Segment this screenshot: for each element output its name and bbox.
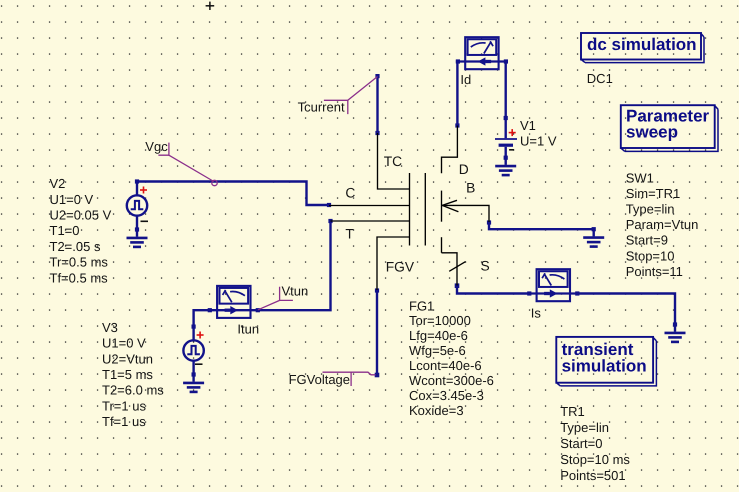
ground below V1 — [495, 158, 516, 175]
svg-text:U2=0.05 V: U2=0.05 V — [50, 208, 112, 223]
V3 parameter text block — [102, 320, 164, 429]
svg-text:S: S — [481, 259, 490, 274]
svg-text:Points=11: Points=11 — [626, 264, 683, 279]
svg-text:Koxide=3: Koxide=3 — [409, 403, 464, 418]
svg-text:T2=6.0 ms: T2=6.0 ms — [102, 383, 164, 398]
svg-text:Id: Id — [460, 72, 471, 87]
FG1 source slash — [449, 262, 465, 272]
transient simulation box — [556, 337, 656, 386]
svg-text:V3: V3 — [102, 320, 118, 335]
V2 bottom pin square — [135, 227, 139, 231]
Parameter sweep box — [621, 105, 718, 151]
svg-text:T1=0: T1=0 — [50, 223, 80, 238]
svg-text:Wcont=300e-6: Wcont=300e-6 — [409, 373, 494, 388]
label Vgc pointer — [158, 143, 217, 186]
svg-text:FGVoltage: FGVoltage — [289, 372, 350, 387]
svg-text:Tf=1 us: Tf=1 us — [102, 414, 146, 429]
origin marker — [206, 2, 215, 10]
svg-text:C: C — [345, 186, 355, 201]
FG1 channel bottom segment — [441, 237, 443, 253]
svg-text:Tf=0.5 ms: Tf=0.5 ms — [50, 270, 109, 285]
wire net Vtun: T pin down-left to Itun meter — [257, 221, 330, 310]
node C pin square — [327, 203, 331, 207]
label Vtun pointer — [258, 287, 293, 310]
svg-text:Cox=3.45e-3: Cox=3.45e-3 — [409, 388, 484, 403]
svg-text:T1=5 ms: T1=5 ms — [102, 367, 153, 382]
svg-text:Stop=10 ms: Stop=10 ms — [560, 452, 630, 467]
dc simulation box — [581, 33, 704, 63]
node S pin square — [455, 283, 460, 288]
svg-text:Tcurrent: Tcurrent — [298, 99, 345, 114]
svg-text:Points=501: Points=501 — [560, 468, 625, 483]
wire Id right to V1 — [505, 62, 507, 119]
ammeter Itun — [208, 286, 260, 318]
FG1 pin lead T — [331, 220, 410, 222]
svg-text:simulation: simulation — [562, 356, 647, 375]
svg-text:Itun: Itun — [237, 322, 259, 337]
V1 minus sign — [509, 149, 514, 151]
FG1 pin lead C — [329, 205, 410, 207]
wire Tcurrent — [376, 76, 378, 133]
svg-text:DC1: DC1 — [587, 71, 613, 86]
node V3 top pin square — [192, 325, 196, 329]
svg-text:Lcont=40e-6: Lcont=40e-6 — [409, 358, 482, 373]
svg-text:U1=0 V: U1=0 V — [102, 336, 146, 351]
V3 minus sign — [195, 363, 203, 365]
node D pin square — [455, 123, 459, 127]
svg-text:V2: V2 — [50, 176, 66, 191]
wire Id left to D — [456, 62, 458, 126]
svg-text:T: T — [345, 227, 354, 242]
svg-text:Type=lin: Type=lin — [626, 202, 675, 217]
FGMOS FG1 symbol — [329, 126, 489, 291]
FG1 gate bar 2 — [424, 173, 426, 246]
ground below V2 — [127, 230, 148, 247]
V2 parameter text block — [50, 176, 112, 285]
svg-text:Start=9: Start=9 — [626, 233, 668, 248]
ammeter Id — [456, 37, 508, 69]
ammeter Is — [527, 269, 579, 301]
node FGVoltage open end square — [375, 373, 380, 378]
node T pin square — [328, 219, 332, 223]
svg-text:FGV: FGV — [386, 260, 415, 275]
FG1 bulk lead B with arrow — [442, 205, 489, 222]
svg-text:SW1: SW1 — [626, 171, 654, 186]
svg-text:Lfg=40e-6: Lfg=40e-6 — [409, 328, 468, 343]
svg-text:Is: Is — [531, 306, 542, 321]
wire Itun left to V3 — [194, 310, 209, 326]
V1 plus sign — [509, 129, 516, 136]
svg-text:FG1: FG1 — [409, 298, 434, 313]
V1 bottom pin square — [504, 156, 508, 160]
SW1 parameter text block — [626, 171, 699, 279]
svg-text:TC: TC — [384, 154, 402, 169]
wire S to Is meter — [457, 286, 529, 294]
TR1 parameter text block — [560, 404, 630, 483]
svg-text:Type=lin: Type=lin — [560, 420, 609, 435]
wire Is right to ground — [577, 294, 675, 325]
node FGV pin square — [375, 288, 379, 292]
svg-text:TR1: TR1 — [560, 404, 585, 419]
FG1 pin lead TC — [378, 133, 410, 189]
dc voltage source V1 — [495, 118, 517, 158]
svg-text:Tor=10000: Tor=10000 — [409, 313, 471, 328]
svg-text:sweep: sweep — [626, 123, 678, 142]
label Tcurrent pointer — [324, 77, 378, 115]
wire net FGVoltage (open stub) — [376, 291, 378, 376]
svg-text:Vgc: Vgc — [145, 139, 168, 154]
node Tcurrent open end — [375, 74, 379, 78]
svg-text:Start=0: Start=0 — [560, 436, 602, 451]
ground at B wire — [583, 229, 604, 246]
wire B to ground — [489, 223, 594, 230]
svg-text:B: B — [466, 181, 475, 196]
svg-text:Tr=1 us: Tr=1 us — [102, 398, 146, 413]
svg-text:Wfg=5e-6: Wfg=5e-6 — [409, 343, 466, 358]
FG1 pin lead FGV — [377, 237, 410, 290]
svg-text:dc simulation: dc simulation — [587, 35, 697, 54]
ground at Is wire — [665, 325, 686, 342]
svg-text:D: D — [459, 162, 469, 177]
svg-text:V1: V1 — [520, 118, 536, 133]
FG1 source lead S — [442, 253, 458, 286]
voltage source V2 — [127, 182, 147, 230]
svg-text:U=1 V: U=1 V — [520, 133, 557, 148]
FG1 parameter text block — [409, 298, 494, 418]
voltage source V3 — [183, 327, 203, 375]
svg-text:Tr=0.5 ms: Tr=0.5 ms — [50, 255, 109, 270]
V3 bottom pin square — [192, 372, 196, 376]
svg-text:Vtun: Vtun — [282, 284, 309, 299]
node TC pin square — [375, 131, 379, 135]
svg-text:U1=0 V: U1=0 V — [50, 192, 94, 207]
wire net Vgc: V2 top to C pin — [137, 182, 329, 206]
node V1 top pin square — [504, 116, 508, 120]
svg-text:Sim=TR1: Sim=TR1 — [626, 186, 681, 201]
FG1 drain lead D — [442, 126, 458, 174]
label FGVoltage pointer — [323, 372, 376, 386]
V2 minus sign — [141, 220, 149, 222]
ground below V3 — [183, 375, 204, 392]
FG1 gate bar 1 — [409, 173, 411, 246]
V2 plus sign — [140, 187, 147, 194]
svg-text:U2=Vtun: U2=Vtun — [102, 351, 153, 366]
node V2 top pin square — [135, 179, 139, 183]
svg-text:Stop=10: Stop=10 — [626, 248, 675, 263]
svg-text:T2=.05 s: T2=.05 s — [50, 239, 101, 254]
node B wire top square — [487, 220, 491, 224]
FG1 channel middle segment — [441, 191, 443, 222]
svg-text:Param=Vtun: Param=Vtun — [626, 217, 699, 232]
node Is ground pin square — [673, 322, 677, 326]
node B ground pin square — [592, 227, 596, 231]
V3 plus sign — [197, 332, 204, 339]
